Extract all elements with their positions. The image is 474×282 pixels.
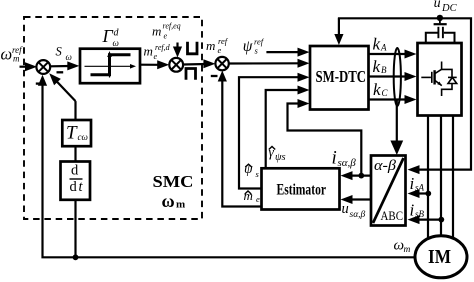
svg-text:A: A: [380, 43, 387, 53]
svg-text:SM-DTC: SM-DTC: [316, 67, 367, 86]
svg-text:m: m: [404, 245, 411, 255]
svg-text:SMC: SMC: [153, 172, 194, 191]
svg-text:e: e: [164, 32, 168, 41]
svg-text:m: m: [206, 38, 215, 53]
svg-text:ψ: ψ: [243, 38, 253, 55]
svg-text:k: k: [373, 34, 381, 53]
svg-text:sA: sA: [415, 183, 425, 193]
svg-text:i: i: [332, 148, 337, 169]
svg-text:k: k: [373, 57, 381, 76]
svg-text:ref,eq: ref,eq: [163, 22, 181, 31]
svg-text:u: u: [342, 201, 349, 217]
svg-text:i: i: [410, 174, 415, 193]
svg-text:α-β: α-β: [374, 158, 397, 174]
svg-text:cω: cω: [78, 132, 88, 142]
svg-text:Estimator: Estimator: [277, 182, 327, 199]
svg-text:IM: IM: [428, 246, 451, 268]
svg-text:e: e: [218, 45, 222, 55]
svg-text:d: d: [71, 163, 79, 179]
svg-text:e: e: [256, 194, 260, 204]
svg-text:m: m: [144, 44, 153, 59]
svg-text:ψs: ψs: [275, 152, 286, 163]
svg-text:B: B: [381, 65, 387, 75]
svg-text:m: m: [176, 199, 185, 211]
svg-text:ω: ω: [394, 238, 405, 254]
svg-text:ref,d: ref,d: [155, 43, 171, 52]
svg-text:m: m: [152, 24, 161, 39]
svg-text:C: C: [382, 88, 389, 98]
svg-text:m: m: [13, 54, 20, 64]
svg-text:u: u: [434, 0, 441, 11]
svg-text:k: k: [373, 80, 381, 99]
svg-text:sB: sB: [415, 209, 425, 219]
svg-text:e: e: [154, 52, 158, 61]
svg-text:ω: ω: [162, 191, 175, 211]
svg-text:S: S: [56, 45, 63, 59]
svg-text:ω: ω: [66, 52, 72, 62]
svg-text:T: T: [66, 123, 78, 144]
svg-text:sα,β: sα,β: [350, 210, 366, 220]
svg-text:ω: ω: [1, 45, 13, 64]
svg-text:ω: ω: [113, 38, 119, 48]
svg-text:d: d: [70, 179, 78, 195]
svg-text:i: i: [410, 201, 415, 220]
svg-text:sα,β: sα,β: [338, 157, 357, 169]
svg-text:ABC: ABC: [381, 209, 404, 223]
svg-text:DC: DC: [441, 3, 458, 14]
